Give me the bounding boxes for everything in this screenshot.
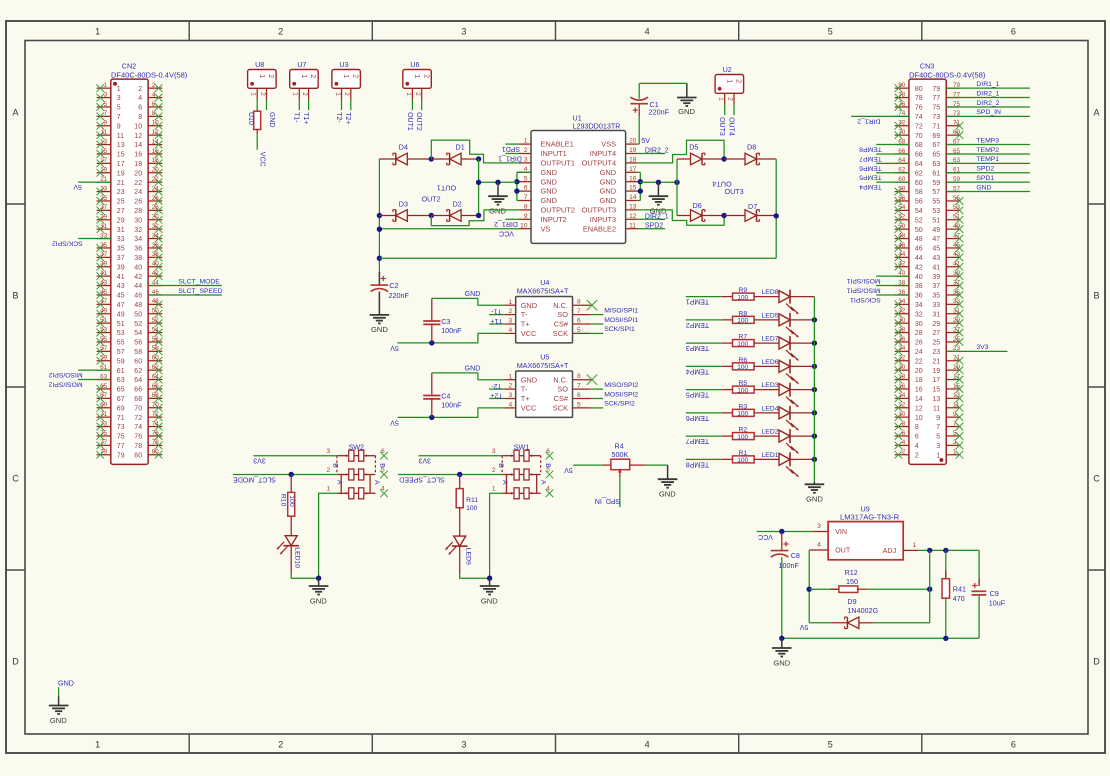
svg-text:69: 69 (932, 133, 940, 140)
CN2 pin 72 (148, 411, 162, 421)
svg-text:D4: D4 (399, 143, 408, 152)
svg-text:1: 1 (95, 27, 100, 37)
svg-text:MOSI/SPI2: MOSI/SPI2 (48, 380, 82, 387)
CN3 pin 58 number (inside) (915, 189, 923, 196)
CN2 pin 35 number (inside) (117, 246, 125, 253)
svg-text:9: 9 (117, 123, 121, 130)
svg-text:16: 16 (134, 152, 142, 159)
svg-text:4: 4 (509, 402, 513, 409)
svg-text:33: 33 (117, 236, 125, 243)
wire net SPD1 at U1 pin 1 (502, 144, 520, 152)
U4 pin 4 (VCC) (504, 327, 537, 338)
CN2 pin 23 number (inside) (117, 189, 125, 196)
U9 pin 3 (VIN) (812, 523, 847, 536)
svg-text:5: 5 (117, 105, 121, 112)
svg-text:A: A (501, 480, 508, 485)
CN3 pin 35 (946, 289, 963, 299)
CN2 pin 55 (97, 336, 111, 346)
svg-text:TEMP5: TEMP5 (859, 174, 882, 181)
svg-text:57: 57 (932, 189, 940, 196)
svg-text:6: 6 (1011, 27, 1016, 37)
svg-text:GND: GND (310, 596, 327, 605)
svg-text:57: 57 (117, 349, 125, 356)
svg-text:60: 60 (134, 358, 142, 365)
U1 pin 5 (GND) (519, 175, 557, 186)
svg-text:T-: T- (521, 385, 528, 394)
wire net TEMP1 at CN3 pin 63 (946, 156, 1030, 163)
svg-text:5V: 5V (390, 344, 399, 351)
svg-text:17: 17 (629, 166, 637, 173)
svg-text:3V3: 3V3 (253, 457, 266, 464)
CN2 pin 56 number (inside) (134, 340, 142, 347)
junction LED rail at LED3 (812, 387, 817, 392)
svg-text:TEMP1: TEMP1 (976, 156, 999, 163)
capacitor C1 (630, 97, 669, 116)
CN2 pin 9 number (inside) (117, 123, 121, 130)
svg-text:LED9: LED9 (464, 548, 471, 565)
svg-text:51: 51 (117, 321, 125, 328)
resistor R11 100 (456, 475, 478, 513)
wire LED10 cathode to GND junction (291, 574, 318, 578)
svg-text:35: 35 (100, 242, 108, 249)
switch SW1 name label (514, 443, 530, 452)
svg-text:31: 31 (100, 223, 108, 230)
svg-text:70: 70 (152, 402, 160, 409)
svg-text:OUTPUT1: OUTPUT1 (541, 159, 576, 168)
CN2 pin 21 (97, 176, 111, 183)
svg-text:17: 17 (117, 161, 125, 168)
CN3 pin 64 (895, 157, 909, 164)
CN2 pin 53 number (inside) (117, 330, 125, 337)
wire net DIR1_1 at U1 pin 2 (498, 154, 522, 162)
wire net T2- at U5 pin 2 (489, 382, 504, 389)
svg-text:5: 5 (828, 27, 833, 37)
wire net TEMP7 into R2 (686, 436, 722, 444)
svg-text:39: 39 (100, 261, 108, 268)
svg-text:76: 76 (915, 105, 923, 112)
svg-text:47: 47 (953, 232, 961, 239)
svg-text:C3: C3 (441, 317, 450, 326)
wire SW1 pin 1 down to GND junction (490, 493, 503, 578)
U1 pin 17 (GND) (600, 166, 638, 177)
svg-text:68: 68 (152, 392, 160, 399)
svg-text:44: 44 (898, 251, 906, 258)
svg-text:54: 54 (134, 330, 142, 337)
label OUT3 (725, 187, 744, 196)
CN2 pin 12 number (inside) (134, 133, 142, 140)
U5 pin 5 (SCK) (553, 401, 591, 412)
svg-text:TEMP1: TEMP1 (686, 298, 709, 305)
wire net SLCT_SPEED at SW1 pin 2 (398, 475, 502, 483)
wire net OUT1 at U6 pin 1 (406, 100, 413, 131)
CN3 pin 11 (946, 402, 963, 412)
svg-text:3: 3 (509, 392, 513, 399)
U1 pin 8 (OUTPUT2) (519, 204, 575, 215)
svg-text:D2: D2 (453, 200, 462, 209)
svg-text:MISO/SPI2: MISO/SPI2 (48, 371, 82, 378)
svg-text:13: 13 (100, 138, 108, 145)
CN3 pin 6 (895, 430, 909, 440)
CN3 pin 55 number (inside) (932, 199, 940, 206)
svg-text:7: 7 (936, 424, 940, 431)
ic U1 value label L293DD013TR (573, 122, 621, 131)
svg-text:SPD1: SPD1 (976, 175, 994, 182)
CN3 pin 45 (946, 242, 963, 252)
svg-text:10: 10 (915, 415, 923, 422)
svg-text:3: 3 (492, 448, 496, 455)
junction GND rail at R41 (943, 636, 948, 641)
connector CN3 body (909, 79, 946, 464)
svg-text:30: 30 (915, 321, 923, 328)
resistor R2 100 (722, 427, 754, 441)
wire net GND into U5 pin 1 (432, 363, 504, 379)
svg-text:5V: 5V (641, 138, 650, 145)
led LED5 (754, 312, 814, 337)
junction node J5 (D5/D8, OUT4) (721, 156, 726, 161)
CN3 pin 41 number (inside) (932, 264, 940, 271)
svg-text:15: 15 (117, 152, 125, 159)
svg-text:43: 43 (117, 283, 125, 290)
svg-text:TEMP6: TEMP6 (859, 164, 882, 171)
svg-text:22: 22 (898, 355, 906, 362)
CN3 pin 36 number (inside) (915, 293, 923, 300)
led LED1 (754, 452, 814, 477)
svg-text:100: 100 (737, 387, 748, 394)
U3 pin 1 (334, 88, 342, 99)
CN3 pin 65 (946, 148, 960, 155)
wire net TEMP2 into R8 (686, 320, 722, 328)
svg-text:2: 2 (351, 74, 360, 78)
junction U1 left GND bracket pin5 (514, 179, 519, 184)
svg-text:T2-: T2- (335, 112, 342, 123)
svg-text:43: 43 (953, 251, 961, 258)
svg-text:SLCT_SPEED: SLCT_SPEED (399, 475, 445, 482)
U4 pin 5 (SCK) (553, 327, 591, 338)
svg-text:OUTPUT2: OUTPUT2 (541, 206, 576, 215)
CN3 pin 63 (946, 157, 960, 164)
capacitor C8 100nF (771, 532, 800, 639)
svg-text:8: 8 (138, 114, 142, 121)
CN2 pin 73 number (inside) (117, 424, 125, 431)
CN3 pin 59 (946, 176, 960, 183)
svg-text:52: 52 (898, 214, 906, 221)
U4 pin 3 (T+) (504, 318, 529, 329)
svg-text:OUT2: OUT2 (415, 112, 422, 131)
svg-text:60: 60 (152, 355, 160, 362)
CN2 pin 20 number (inside) (134, 170, 142, 177)
ground symbol under SW1 (480, 578, 500, 605)
svg-text:DIR1_1: DIR1_1 (498, 154, 522, 161)
svg-text:2: 2 (327, 467, 331, 474)
junction ADJ at R41 (943, 548, 948, 553)
ic U4 body (516, 297, 573, 343)
CN3 pin 5 number (inside) (936, 434, 940, 441)
svg-text:DIR2_2: DIR2_2 (645, 148, 669, 155)
CN2 pin 45 (97, 289, 111, 299)
wire net DIR2_1 at U1 pin 12 (638, 213, 669, 220)
SW2 pin 6 no-connect (380, 448, 388, 460)
svg-text:18: 18 (898, 373, 906, 380)
wire U1 pins 4-7 GND bracket (517, 172, 531, 200)
U1 pin 7 (GND) (519, 194, 557, 205)
CN2 pin 40 number (inside) (134, 264, 142, 271)
CN3 pin 13 number (inside) (932, 396, 940, 403)
svg-text:SPD_IN: SPD_IN (595, 497, 620, 504)
U1 pin 11 (ENABLE2) (583, 222, 638, 233)
CN2 pin 6 number (inside) (138, 105, 142, 112)
svg-text:100: 100 (288, 495, 295, 507)
R4 wiper arrow (618, 469, 622, 478)
SW1 pin 4 no-connect (546, 486, 554, 498)
wire net SPD_IN at R4 wiper (595, 477, 620, 507)
svg-text:48: 48 (134, 302, 142, 309)
svg-text:VCC: VCC (521, 329, 537, 338)
svg-text:R9: R9 (739, 287, 748, 294)
CN3 pin 42 (895, 261, 909, 271)
CN2 pin 22 number (inside) (134, 180, 142, 187)
CN2 pin 55 number (inside) (117, 340, 125, 347)
svg-text:DF40C-80DS-0.4V(58): DF40C-80DS-0.4V(58) (909, 71, 986, 80)
svg-text:65: 65 (932, 152, 940, 159)
svg-text:7: 7 (104, 110, 108, 117)
svg-text:14: 14 (134, 142, 142, 149)
CN2 pin 70 number (inside) (134, 405, 142, 412)
CN3 pin 7 number (inside) (936, 424, 940, 431)
CN2 pin 20 (148, 167, 162, 177)
svg-text:37: 37 (100, 251, 108, 258)
svg-text:35: 35 (932, 293, 940, 300)
svg-text:100nF: 100nF (779, 561, 800, 570)
junction left GND rail at stem (495, 180, 500, 185)
svg-text:MISO/SPI1: MISO/SPI1 (846, 286, 880, 293)
svg-text:39: 39 (117, 264, 125, 271)
svg-text:46: 46 (915, 246, 923, 253)
svg-text:78: 78 (134, 443, 142, 450)
svg-text:24: 24 (152, 185, 160, 192)
wire net T1+ at U7 pin 2 (302, 100, 309, 125)
junction left rail at bottom rail (377, 256, 382, 261)
svg-text:75: 75 (117, 434, 125, 441)
svg-text:32: 32 (915, 311, 923, 318)
CN3 pin 64 number (inside) (915, 161, 923, 168)
connector U2 body (715, 75, 744, 94)
CN3 pin 36 (895, 289, 909, 296)
svg-text:76: 76 (134, 434, 142, 441)
svg-text:6: 6 (915, 434, 919, 441)
svg-text:71: 71 (100, 411, 108, 418)
svg-text:79: 79 (932, 86, 940, 93)
svg-text:54: 54 (152, 326, 160, 333)
svg-text:MISO/SPI1: MISO/SPI1 (604, 307, 638, 314)
svg-text:49: 49 (953, 223, 961, 230)
svg-text:4: 4 (509, 327, 513, 334)
svg-text:55: 55 (100, 336, 108, 343)
CN3 pin 11 number (inside) (933, 405, 940, 412)
CN2 pin 76 number (inside) (134, 434, 142, 441)
svg-text:51: 51 (932, 217, 940, 224)
svg-text:7: 7 (117, 114, 121, 121)
CN2 pin 78 number (inside) (134, 443, 142, 450)
svg-text:TEMP5: TEMP5 (686, 391, 709, 398)
svg-text:25: 25 (953, 336, 961, 343)
CN3 pin 16 number (inside) (915, 387, 923, 394)
svg-text:20: 20 (898, 364, 906, 371)
svg-text:OUTPUT3: OUTPUT3 (582, 206, 617, 215)
svg-text:46: 46 (898, 242, 906, 249)
CN2 pin 37 (97, 251, 111, 261)
wire net SLCT_SPEED at CN2 pin 46 (148, 288, 222, 295)
svg-text:OUT: OUT (835, 546, 851, 555)
svg-text:N.C.: N.C. (553, 301, 568, 310)
svg-text:LM317AG-TN3-R: LM317AG-TN3-R (840, 513, 900, 522)
CN3 pin 66 (895, 148, 909, 155)
wire SW2 pin 1 down to GND junction (319, 493, 337, 578)
wire D9 up to R12 row (929, 589, 931, 623)
CN2 pin 80 (148, 449, 162, 459)
CN3 pin 7 (946, 420, 963, 430)
svg-text:SLCT_MODE: SLCT_MODE (178, 278, 220, 285)
junction R12 right at ADJ vertical (927, 587, 932, 592)
svg-text:51: 51 (953, 214, 961, 221)
svg-text:56: 56 (134, 340, 142, 347)
U8 pin 2 (259, 88, 267, 99)
ic U9 value label LM317AG-TN3-R (840, 513, 900, 522)
svg-text:220nF: 220nF (649, 108, 670, 117)
ground symbol under SW2 (309, 578, 329, 605)
CN3 pin 41 (946, 261, 963, 271)
svg-text:INPUT3: INPUT3 (590, 215, 616, 224)
svg-text:DIR2_2: DIR2_2 (976, 100, 999, 107)
led LED7 (754, 336, 814, 361)
svg-text:42: 42 (915, 264, 923, 271)
CN3 pin 77 (946, 91, 960, 98)
svg-text:4: 4 (915, 443, 919, 450)
svg-text:3: 3 (953, 439, 957, 446)
CN3 pin 45 number (inside) (932, 246, 940, 253)
CN2 pin 39 number (inside) (117, 264, 125, 271)
svg-text:21: 21 (953, 355, 961, 362)
svg-text:45: 45 (953, 242, 961, 249)
CN2 pin 13 (97, 138, 111, 148)
svg-text:10uF: 10uF (989, 599, 1006, 608)
svg-text:1: 1 (342, 74, 351, 78)
svg-text:GND: GND (650, 207, 667, 216)
CN2 pin 47 number (inside) (117, 302, 125, 309)
CN2 pin 45 number (inside) (117, 293, 125, 300)
U1 pin 14 (GND) (600, 194, 638, 205)
CN2 pin 61 number (inside) (117, 368, 125, 375)
svg-text:31: 31 (117, 227, 125, 234)
wire net SLCT_MODE at CN2 pin 44 (148, 278, 222, 285)
led LED2 (754, 429, 814, 454)
svg-text:CS#: CS# (554, 320, 569, 329)
wire right vertical rail (VCC, right of D8/D7) (775, 159, 777, 258)
U5 pin 6 (CS#) (554, 392, 591, 403)
svg-text:65: 65 (117, 387, 125, 394)
CN3 pin 51 (946, 214, 963, 224)
switch SW2 body (337, 450, 376, 499)
CN2 pin 57 (97, 345, 111, 355)
CN2 pin 58 number (inside) (134, 349, 142, 356)
CN2 pin 67 number (inside) (117, 396, 125, 403)
svg-text:150: 150 (846, 577, 858, 586)
svg-text:11: 11 (629, 222, 636, 229)
svg-text:80: 80 (152, 449, 160, 456)
svg-text:DF40C-80DS-0.4V(58): DF40C-80DS-0.4V(58) (111, 71, 188, 80)
CN3 pin 39 (946, 270, 963, 280)
wire net SCK/SPI2 at CN2 pin 33 (52, 239, 111, 247)
svg-text:2: 2 (509, 308, 513, 315)
CN2 pin 80 number (inside) (134, 452, 142, 459)
CN3 pin 1 number (inside) (936, 452, 940, 459)
CN2 pin 26 (148, 195, 162, 205)
svg-text:45: 45 (117, 293, 125, 300)
wire net MOSI/SPI1 at CN3 pin 40 (846, 276, 908, 284)
svg-text:10: 10 (134, 123, 142, 130)
CN2 pin 73 (97, 420, 111, 430)
CN3 pin 70 number (inside) (915, 133, 923, 140)
CN2 pin 36 number (inside) (134, 246, 142, 253)
U7 pin 2 (301, 88, 309, 99)
CN3 pin 74 (895, 110, 909, 117)
CN2 pin 23 (97, 185, 111, 195)
svg-text:14: 14 (152, 138, 160, 145)
svg-text:7: 7 (524, 194, 528, 201)
wire net SCK/SPI1 at CN3 pin 36 (850, 295, 909, 303)
wire net MOSI/SPI1 at U4 pin 6 (591, 317, 639, 324)
wire net TEMP8 at CN3 pin 68 (859, 145, 909, 153)
svg-text:GND: GND (371, 325, 388, 334)
wire OUT4 top bracket from U1 pin18 (638, 140, 724, 163)
svg-text:49: 49 (117, 311, 125, 318)
CN2 pin 56 (148, 336, 162, 346)
svg-text:62: 62 (915, 170, 923, 177)
CN3 pin 77 number (inside) (932, 95, 940, 102)
CN3 pin 31 number (inside) (932, 311, 940, 318)
ic U1 name label (573, 114, 582, 123)
svg-text:C: C (12, 474, 19, 484)
CN3 pin 73 (946, 110, 960, 117)
wire net SPD2 at CN3 pin 61 (946, 166, 1030, 173)
svg-text:30: 30 (152, 214, 160, 221)
svg-text:100: 100 (737, 294, 748, 301)
svg-text:1: 1 (492, 486, 496, 493)
svg-text:5V: 5V (564, 466, 573, 473)
U5 pin 2 (T-) (504, 383, 528, 394)
svg-text:D7: D7 (748, 202, 757, 211)
CN2 pin 38 number (inside) (134, 255, 142, 262)
CN3 pin 9 (946, 411, 963, 421)
U4 pin 2 (T-) (504, 308, 528, 319)
svg-text:VCC: VCC (499, 229, 514, 236)
wire left vertical rail (VCC net, left of D4/D3) (378, 159, 380, 272)
wire net T1- at U4 pin 2 (489, 307, 504, 314)
svg-text:80: 80 (915, 86, 923, 93)
junction VCC at C8 (779, 529, 784, 534)
svg-text:47: 47 (117, 302, 125, 309)
svg-text:C9: C9 (990, 589, 999, 598)
svg-text:T2+: T2+ (344, 112, 351, 124)
U1 pin 19 (INPUT4) (590, 147, 638, 158)
svg-text:GND: GND (50, 716, 67, 725)
CN3 pin 18 number (inside) (915, 377, 923, 384)
svg-text:46: 46 (134, 293, 142, 300)
svg-text:70: 70 (134, 405, 142, 412)
svg-text:9: 9 (936, 415, 940, 422)
U1 pin 1 (ENABLE1) (519, 138, 574, 149)
svg-text:42: 42 (134, 274, 142, 281)
svg-text:41: 41 (953, 261, 961, 268)
